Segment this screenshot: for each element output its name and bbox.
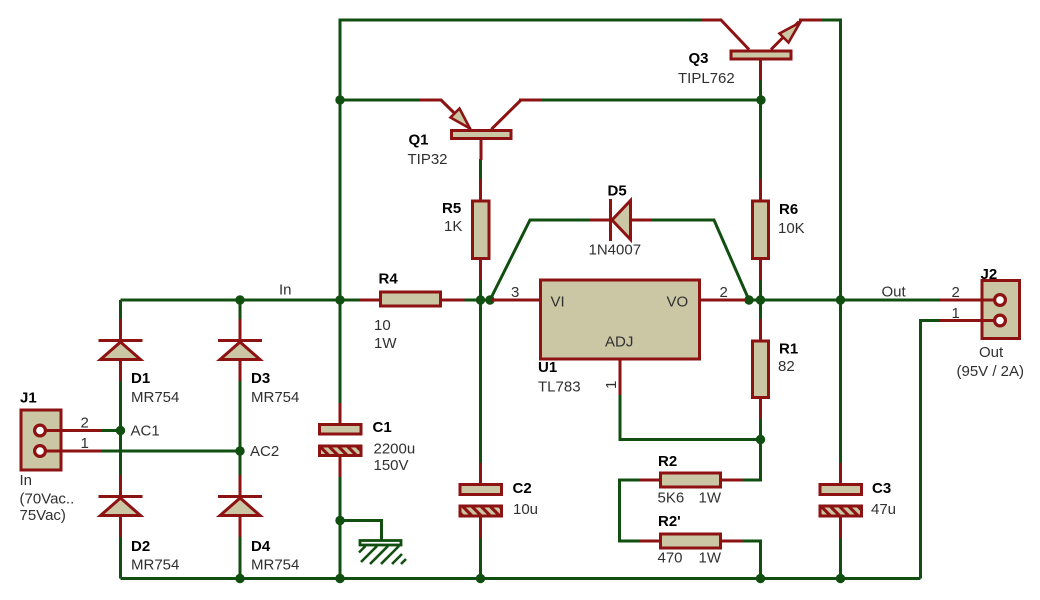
svg-text:1W: 1W <box>699 490 722 507</box>
svg-text:3: 3 <box>511 284 519 301</box>
connector J1 <box>20 390 102 525</box>
svg-text:2200u: 2200u <box>374 441 416 458</box>
svg-text:R2': R2' <box>658 513 681 530</box>
svg-text:ADJ: ADJ <box>605 334 633 351</box>
wire AC2 <box>100 450 240 453</box>
svg-text:1N4007: 1N4007 <box>589 242 642 259</box>
diode D2 MR754 <box>99 475 180 574</box>
svg-text:D4: D4 <box>251 538 271 555</box>
diode D4 MR754 <box>218 475 299 574</box>
capacitor C3 47u <box>820 463 896 539</box>
node Out C3 junction <box>836 295 845 304</box>
node ground tap junction <box>335 516 344 525</box>
node VI D5 junction <box>485 295 494 304</box>
svg-text:AC1: AC1 <box>131 423 160 440</box>
node bottom rail C3 junction <box>836 574 845 583</box>
svg-text:TIPL762: TIPL762 <box>678 70 735 87</box>
resistor R2 5K6 1W <box>639 453 743 507</box>
resistor R4 10 1W <box>360 271 465 353</box>
svg-text:Q1: Q1 <box>409 132 429 149</box>
node VI R5 junction <box>476 295 485 304</box>
svg-text:2: 2 <box>81 415 89 432</box>
svg-text:VI: VI <box>551 294 565 311</box>
capacitor C2 10u <box>460 463 538 539</box>
node bottom rail C2 junction <box>476 574 485 583</box>
resistor R6 10K <box>753 179 805 280</box>
svg-text:R6: R6 <box>779 201 798 218</box>
wire In rail <box>121 299 493 302</box>
svg-text:J2: J2 <box>981 266 998 283</box>
svg-text:10K: 10K <box>778 220 805 237</box>
svg-text:TL783: TL783 <box>538 379 581 396</box>
wire R5 column <box>479 159 482 300</box>
ground <box>359 541 406 565</box>
svg-text:(95V / 2A): (95V / 2A) <box>957 363 1025 380</box>
svg-text:D2: D2 <box>131 538 150 555</box>
wire D5 right diagonal <box>650 220 749 300</box>
connector J2 <box>940 266 1024 380</box>
transistor Q1 TIP32 <box>408 100 542 168</box>
svg-text:47u: 47u <box>871 501 896 518</box>
node In rail D3 junction <box>235 295 244 304</box>
wire R2' right to bottom rail <box>742 541 761 579</box>
diode D5 1N4007 <box>589 182 652 258</box>
wire R2 left to R2' left <box>620 480 641 541</box>
op-amp U1 TL783 regulator <box>492 280 746 396</box>
svg-text:MR754: MR754 <box>131 557 179 574</box>
svg-text:1W: 1W <box>699 550 722 567</box>
svg-text:1: 1 <box>81 435 89 452</box>
svg-text:75Vac): 75Vac) <box>20 507 66 524</box>
wire C1 branch <box>339 300 342 579</box>
svg-text:TIP32: TIP32 <box>408 151 448 168</box>
svg-text:MR754: MR754 <box>131 389 179 406</box>
wire R1 column <box>759 300 762 440</box>
wire C3 branch <box>839 300 842 579</box>
svg-text:R4: R4 <box>379 271 399 288</box>
wire ADJ run <box>620 394 761 440</box>
svg-text:1: 1 <box>603 381 620 389</box>
svg-text:In: In <box>279 282 292 299</box>
svg-text:D1: D1 <box>131 370 150 387</box>
diode D3 MR754 <box>218 319 299 406</box>
wire AC1 <box>100 429 121 432</box>
svg-text:MR754: MR754 <box>251 389 299 406</box>
transistor Q3 TIPL762 <box>678 20 821 87</box>
wire Q1 base rail y=100 <box>340 99 762 102</box>
node VO D5 junction <box>744 295 753 304</box>
svg-text:2: 2 <box>952 284 960 301</box>
node bottom rail D4 junction <box>235 574 244 583</box>
node In rail C1 junction <box>335 295 344 304</box>
svg-text:MR754: MR754 <box>251 557 299 574</box>
node bottom rail C1 junction <box>335 574 344 583</box>
wire bottom rail <box>121 577 921 580</box>
node VO R6 junction <box>756 295 765 304</box>
svg-text:R2: R2 <box>658 453 677 470</box>
wire C2 branch <box>479 300 482 579</box>
node AC2 junction <box>235 446 244 455</box>
svg-text:AC2: AC2 <box>250 443 279 460</box>
diode D1 MR754 <box>99 319 180 406</box>
svg-text:Q3: Q3 <box>689 50 709 67</box>
wire R6 bottom to VO node <box>759 279 762 300</box>
svg-text:5K6: 5K6 <box>658 490 685 507</box>
svg-text:VO: VO <box>667 294 689 311</box>
node Q1 rail left junction <box>335 95 344 104</box>
svg-text:Out: Out <box>882 284 907 301</box>
resistor R1 82 <box>753 319 799 419</box>
wire ADJ node to R2 <box>742 440 761 481</box>
svg-text:1: 1 <box>952 305 960 322</box>
svg-text:R1: R1 <box>779 341 798 358</box>
svg-text:Out: Out <box>979 344 1004 361</box>
wire VO to Out <box>749 299 940 302</box>
svg-text:C2: C2 <box>513 480 532 497</box>
wire ground tap <box>340 521 382 541</box>
svg-text:(70Vac..: (70Vac.. <box>20 491 75 508</box>
svg-text:10: 10 <box>374 317 391 334</box>
node Q3 collector junction <box>756 95 765 104</box>
svg-text:2: 2 <box>720 284 728 301</box>
resistor R2' 470 1W <box>639 513 743 567</box>
wire bridge left branch <box>119 300 122 579</box>
svg-text:C1: C1 <box>373 419 392 436</box>
svg-text:D5: D5 <box>608 182 627 199</box>
svg-text:470: 470 <box>658 550 683 567</box>
svg-text:82: 82 <box>778 358 795 375</box>
svg-text:R5: R5 <box>442 200 461 217</box>
svg-text:150V: 150V <box>374 457 409 474</box>
wire bridge right branch <box>239 300 242 579</box>
node bottom rail R2' junction <box>756 574 765 583</box>
resistor R5 1K <box>442 179 489 280</box>
svg-text:1K: 1K <box>444 218 462 235</box>
wire top rail <box>340 20 841 301</box>
svg-text:1W: 1W <box>374 335 397 352</box>
svg-text:10u: 10u <box>513 501 538 518</box>
wire J2 pin1 riser <box>921 321 941 579</box>
svg-text:J1: J1 <box>20 390 37 407</box>
svg-text:D3: D3 <box>251 370 270 387</box>
capacitor C1 2200u 150V <box>320 403 416 477</box>
wire Q3 collector to R6 <box>759 80 762 180</box>
node AC1 junction <box>116 426 125 435</box>
svg-text:U1: U1 <box>538 359 557 376</box>
svg-text:C3: C3 <box>872 480 891 497</box>
node ADJ R1 junction <box>756 435 765 444</box>
wire D5 left diagonal <box>490 220 590 300</box>
svg-text:In: In <box>20 472 33 489</box>
